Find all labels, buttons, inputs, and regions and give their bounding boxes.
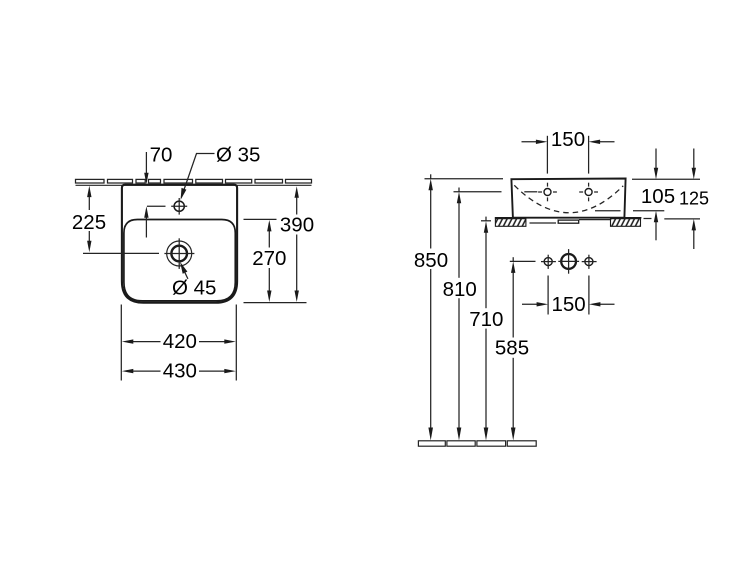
svg-text:105: 105 — [641, 185, 675, 208]
svg-text:Ø 45: Ø 45 — [172, 277, 216, 300]
svg-text:225: 225 — [72, 211, 106, 234]
svg-text:710: 710 — [469, 308, 503, 331]
right bracket (hatched) — [611, 219, 641, 227]
svg-text:430: 430 — [163, 360, 197, 383]
floor tiles — [418, 441, 536, 446]
drain — [167, 241, 192, 266]
bowl dashed profile — [514, 185, 623, 212]
svg-text:125: 125 — [679, 188, 709, 208]
left bracket (hatched) — [495, 219, 526, 227]
label Ø45 leader — [180, 262, 187, 274]
svg-text:150: 150 — [551, 128, 585, 151]
svg-text:270: 270 — [252, 247, 286, 270]
dim 125 — [644, 149, 701, 250]
dim 150 top — [522, 136, 615, 174]
svg-text:850: 850 — [414, 249, 448, 272]
dim 850 — [425, 174, 504, 433]
dim 810 — [454, 188, 538, 434]
tap hole — [174, 201, 184, 211]
basin inner bowl — [124, 220, 235, 301]
dim 70 — [146, 152, 165, 238]
basin outer outline — [122, 185, 237, 303]
label Ø35 leader — [181, 154, 214, 198]
svg-text:Ø 35: Ø 35 — [216, 143, 260, 166]
drain tab — [558, 220, 579, 223]
basin fixing holes — [544, 189, 592, 196]
svg-text:420: 420 — [163, 330, 197, 353]
svg-text:150: 150 — [551, 293, 585, 316]
dim 225 — [83, 193, 159, 253]
svg-text:585: 585 — [495, 337, 529, 360]
svg-text:810: 810 — [443, 278, 477, 301]
svg-text:70: 70 — [150, 143, 173, 166]
wall base line — [76, 184, 312, 186]
dim 150 bottom — [522, 276, 615, 315]
dim 585 — [510, 257, 536, 433]
lower fixing holes group — [544, 258, 552, 266]
mounting rail top line — [495, 217, 642, 219]
dims 420 / 430 — [121, 305, 236, 381]
rail bottom segments — [530, 222, 557, 224]
basin body — [511, 179, 625, 218]
dim 390 — [244, 194, 307, 303]
svg-text:390: 390 — [280, 214, 314, 237]
dim 270 — [244, 219, 277, 294]
dim 105 — [595, 149, 700, 241]
dim 710 — [481, 217, 491, 433]
wall tile row — [76, 179, 312, 183]
